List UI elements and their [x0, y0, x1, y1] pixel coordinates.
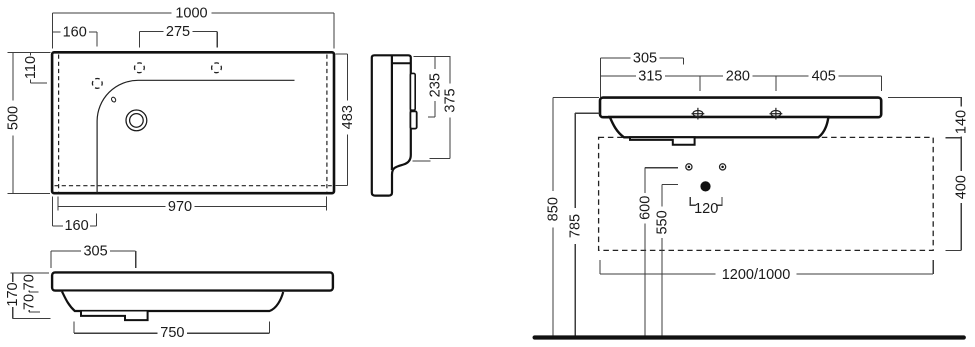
dimension 483 (plan right) — [336, 54, 348, 186]
floor line — [535, 335, 964, 339]
extension line top (side) — [414, 56, 451, 58]
svg-text:280: 280 — [726, 68, 750, 84]
svg-text:405: 405 — [812, 68, 836, 84]
overflow hole — [111, 96, 117, 102]
svg-text:315: 315 — [638, 68, 662, 84]
dimension 275 (plan top) — [139, 32, 217, 48]
svg-text:375: 375 — [442, 88, 458, 112]
drain hole outer — [126, 110, 147, 131]
waste outlet (filled circle) — [700, 181, 710, 191]
keyhole mounting plate (side) — [410, 73, 415, 110]
side inner wall line — [391, 56, 393, 171]
dashed inner edge right — [326, 55, 328, 192]
front drain plate and trap tab — [81, 312, 148, 321]
svg-text:785: 785 — [568, 214, 584, 238]
svg-text:110: 110 — [23, 56, 39, 79]
svg-text:120: 120 — [694, 201, 718, 217]
svg-text:550: 550 — [654, 210, 670, 234]
basin rim (installation) — [600, 98, 881, 118]
svg-text:70: 70 — [22, 274, 38, 290]
svg-text:1200/1000: 1200/1000 — [722, 267, 791, 283]
bolt hole symbol right — [770, 108, 783, 120]
cabinet dashed rectangle — [599, 137, 934, 250]
dimension 305 (front top) — [51, 251, 136, 268]
dimension 970 (plan bottom) — [58, 197, 326, 211]
svg-text:750: 750 — [160, 325, 184, 341]
svg-text:400: 400 — [954, 175, 970, 199]
drain hole inner — [130, 114, 144, 128]
extension line 375 (side) — [412, 160, 430, 162]
svg-text:305: 305 — [83, 243, 107, 259]
dimension 70 lower (front left) — [29, 310, 40, 312]
dimension 120 (installation) — [690, 197, 722, 205]
front bowl underside — [62, 292, 283, 312]
svg-text:70: 70 — [22, 294, 38, 310]
svg-text:160: 160 — [64, 218, 88, 234]
dimension 140 (installation right) — [946, 98, 962, 138]
svg-text:500: 500 — [6, 106, 22, 130]
dimension 160 (plan top left) — [53, 32, 98, 47]
dimension 160 (plan bottom left) — [52, 197, 96, 226]
dimension 600 (installation) — [645, 168, 678, 336]
dashed inner edge bottom — [55, 185, 332, 187]
drain plate and tab (installation) — [630, 137, 695, 145]
dimension 850 (installation left) — [553, 97, 599, 335]
dimension 550 (installation) — [662, 185, 678, 336]
dimension 315 — [600, 58, 700, 97]
svg-text:235: 235 — [428, 73, 444, 97]
bolt hole symbol left — [692, 108, 705, 120]
dimension 110 (plan left) — [30, 53, 47, 83]
svg-text:483: 483 — [340, 105, 356, 129]
tap hole left (dashed circle) — [92, 79, 102, 89]
tap hole right (dashed circle) — [212, 63, 222, 73]
mounting tab (side) — [410, 111, 416, 128]
dimension 1000 (plan top) — [53, 13, 335, 49]
dimension 785 (installation left) — [575, 113, 600, 335]
dashed inner edge left — [58, 55, 60, 192]
dimension 235 (side) — [428, 57, 435, 117]
tap hole middle (dashed circle) — [135, 63, 145, 73]
wall fixing hole right — [720, 164, 726, 170]
svg-text:600: 600 — [638, 196, 654, 220]
svg-text:970: 970 — [168, 199, 192, 215]
svg-text:305: 305 — [633, 51, 657, 67]
dimension 375 (side) — [430, 57, 450, 159]
dimension 400 (installation right) — [946, 138, 962, 251]
dimension 305 (installation top) — [600, 58, 683, 65]
extension line top right (installation) — [888, 97, 962, 99]
dimension 280 — [700, 76, 776, 91]
dimension 405 — [776, 76, 882, 91]
svg-text:275: 275 — [166, 24, 190, 40]
front rim — [52, 272, 333, 290]
inner bowl outline (plan) — [97, 80, 294, 193]
svg-text:160: 160 — [63, 24, 87, 40]
svg-text:850: 850 — [546, 197, 562, 221]
svg-text:1000: 1000 — [175, 5, 207, 21]
dimension 500 (plan left) — [7, 53, 50, 194]
basin bowl underside (installation) — [610, 117, 829, 137]
dimension 750 (front bottom) — [74, 321, 269, 333]
dimension 70 upper (front left) — [29, 291, 38, 292]
basin outer rim (plan) — [52, 52, 334, 193]
svg-text:140: 140 — [954, 110, 970, 134]
side back ledge line — [392, 62, 411, 64]
dimension 170 (front left) — [11, 273, 51, 318]
dimension 1200/1000 (installation bottom) — [600, 260, 933, 274]
side profile outline — [372, 55, 411, 195]
svg-text:170: 170 — [5, 282, 21, 306]
wall fixing hole left — [686, 164, 692, 170]
